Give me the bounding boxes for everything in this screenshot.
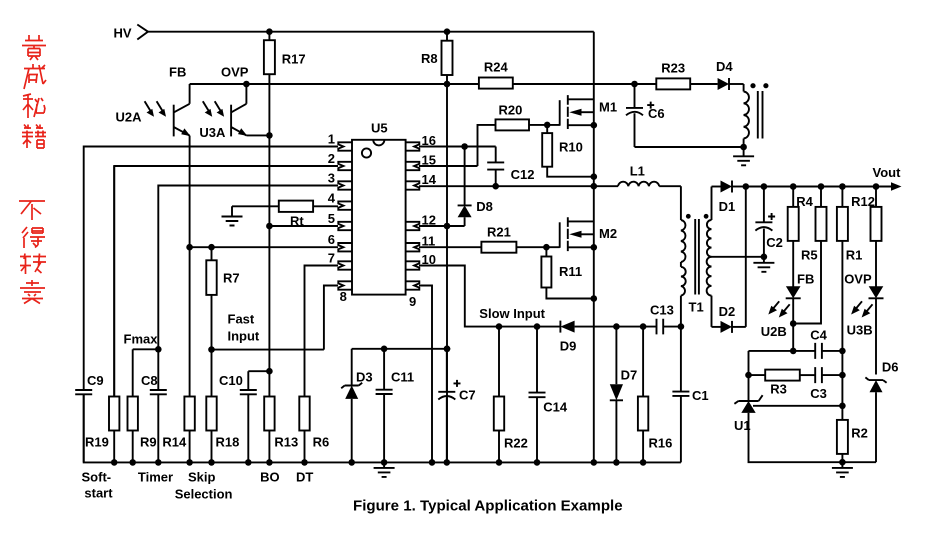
- svg-text:Soft-: Soft-: [82, 470, 112, 485]
- U5 pin 7: [338, 261, 352, 269]
- watermark char 7 (zhuan): [20, 254, 46, 275]
- U5 pin 5: [338, 222, 352, 230]
- node Vout R12: [873, 183, 880, 190]
- transformer aux winding: [744, 84, 749, 147]
- node C12 bottom / pin14: [492, 183, 499, 190]
- LED U2B: [761, 286, 801, 351]
- node Vout C2: [761, 183, 768, 190]
- wire FB/OVP horizontal to R24: [190, 83, 479, 85]
- IC U5 body: [352, 121, 406, 295]
- capacitor C6 (polarized): [626, 84, 665, 147]
- shunt regulator U1: [734, 395, 876, 462]
- capacitor C1: [672, 327, 708, 463]
- node bus D3: [348, 459, 355, 466]
- wire pin9 riser: [419, 286, 432, 463]
- node bus R6: [301, 459, 308, 466]
- node bus R14: [186, 459, 193, 466]
- node bus R16: [640, 459, 647, 466]
- wire pin3 to left bus: [158, 186, 338, 391]
- svg-text:R20: R20: [499, 103, 523, 118]
- transformer T1 primary winding: [681, 220, 686, 327]
- wire L1 to T1 primary top: [680, 186, 682, 220]
- wire C4 row: [749, 350, 816, 352]
- U5 pin 3: [338, 181, 352, 189]
- resistor R18: [206, 397, 239, 463]
- resistor R22: [494, 327, 528, 463]
- svg-text:C9: C9: [87, 373, 104, 388]
- diode D1: [712, 181, 746, 215]
- diode D8: [458, 147, 493, 227]
- svg-text:4: 4: [328, 191, 336, 206]
- svg-text:R5: R5: [801, 248, 818, 263]
- svg-text:Fmax: Fmax: [124, 332, 159, 347]
- node slow R16: [640, 323, 647, 330]
- wire C6 bottom to transformer ground: [635, 146, 744, 148]
- wire pin2 to left bus: [114, 166, 338, 397]
- node ref/R1R2: [839, 403, 846, 410]
- wire T1 center tap to C2/gnd: [712, 256, 764, 258]
- node C7wire/447bus: [444, 346, 451, 353]
- resistor R17: [264, 32, 306, 74]
- svg-text:C6: C6: [648, 106, 665, 121]
- resistor R12: [851, 187, 881, 288]
- node bus C10: [245, 459, 252, 466]
- zener diode D6: [865, 360, 898, 463]
- watermark char 1 (huang): [22, 35, 46, 60]
- transistor M1 (MOSFET): [560, 95, 617, 129]
- resistor R4: [788, 187, 814, 288]
- watermark char 3 (mi): [23, 94, 45, 118]
- node bus D7: [613, 459, 620, 466]
- capacitor C14: [529, 327, 568, 463]
- optocoupler transistor U2A: [116, 84, 191, 136]
- resistor R6: [299, 397, 329, 463]
- node bus R13: [266, 459, 273, 466]
- node C10/R13 bus junction: [266, 368, 273, 375]
- resistor R1: [837, 187, 862, 420]
- transformer T1 core: [695, 219, 699, 295]
- resistor R16: [638, 327, 672, 463]
- svg-text:R12: R12: [851, 194, 875, 209]
- node Vout D2: [743, 183, 750, 190]
- svg-text:DT: DT: [296, 470, 313, 485]
- wire pin5 to R17 bus: [269, 225, 338, 227]
- capacitor C12: [487, 147, 534, 187]
- wire pin15: [419, 165, 478, 167]
- svg-text:Selection: Selection: [175, 486, 233, 501]
- wire U3A emitter to R17 bus: [246, 134, 269, 136]
- node C7 top: [444, 346, 451, 353]
- node aux gnd: [740, 144, 747, 151]
- inductor L1: [594, 164, 681, 187]
- svg-text:R22: R22: [504, 436, 528, 451]
- svg-text:C8: C8: [141, 373, 158, 388]
- node C2/center tap: [761, 253, 768, 260]
- node bus pin9: [429, 459, 436, 466]
- resistor R3: [749, 370, 816, 397]
- resistor R2: [837, 420, 868, 462]
- svg-text:U1: U1: [734, 418, 751, 433]
- zener diode D3: [341, 349, 372, 463]
- node U3A emitter junction: [266, 132, 273, 139]
- watermark char 6 (de): [22, 227, 45, 248]
- U5 pin 8: [338, 281, 352, 289]
- node bus R9: [129, 459, 136, 466]
- resistor R7: [206, 247, 239, 396]
- capacitor C2 (polarized): [755, 187, 783, 257]
- node C6/R23: [631, 81, 638, 88]
- ground at R2: [832, 462, 853, 477]
- wire R8 bottom bus (447) down to ground bus: [446, 75, 448, 462]
- diode D9: [560, 321, 657, 354]
- wire Fmax (R9 to C8 bus): [133, 348, 159, 350]
- svg-text:C3: C3: [810, 386, 827, 401]
- node Vout R5: [818, 183, 825, 190]
- node HV/R8 junction: [444, 28, 451, 35]
- svg-text:14: 14: [422, 172, 437, 187]
- node Fast Input/R7-R18 junction: [208, 346, 215, 353]
- HV input port: [114, 25, 149, 41]
- svg-text:R17: R17: [282, 52, 306, 67]
- svg-text:R4: R4: [796, 194, 813, 209]
- svg-text:T1: T1: [689, 300, 704, 315]
- wire pin7 to DT bus: [305, 266, 339, 397]
- svg-text:R6: R6: [313, 435, 330, 450]
- wire HV bus: [148, 31, 594, 33]
- svg-text:Fast: Fast: [228, 312, 255, 327]
- wire pin16: [419, 146, 496, 148]
- svg-text:C7: C7: [459, 388, 476, 403]
- watermark char 8 (mai): [20, 280, 45, 304]
- svg-text:U3B: U3B: [847, 323, 873, 338]
- node Vout R1: [839, 183, 846, 190]
- svg-text:C13: C13: [650, 303, 674, 318]
- svg-text:Input: Input: [228, 329, 260, 344]
- svg-text:M1: M1: [599, 100, 617, 115]
- resistor R13: [264, 397, 298, 463]
- svg-text:9: 9: [409, 294, 416, 309]
- svg-text:1: 1: [328, 132, 335, 147]
- svg-text:3: 3: [328, 171, 335, 186]
- capacitor C11: [376, 349, 415, 463]
- node L1/pin14: [591, 183, 598, 190]
- watermark char 2 (cheng): [24, 64, 46, 89]
- svg-text:2: 2: [328, 151, 335, 166]
- diode D7: [610, 327, 637, 463]
- transformer T1 secondary winding: [707, 187, 712, 327]
- LED U3B: [847, 286, 884, 374]
- svg-text:R13: R13: [274, 435, 298, 450]
- svg-text:C14: C14: [543, 400, 568, 415]
- wire Slow Input row: [419, 266, 560, 327]
- ground at C2: [753, 257, 774, 272]
- node pin5 junction: [266, 223, 273, 230]
- T1 phasing dots: [686, 214, 691, 219]
- wire M1/M2 drain-source riser: [593, 32, 595, 463]
- watermark char 4 (ji): [22, 125, 46, 149]
- svg-text:start: start: [84, 486, 113, 501]
- ground at aux winding: [733, 147, 754, 165]
- wire pin6 to U2A bus: [190, 246, 338, 248]
- svg-text:Vout: Vout: [873, 165, 902, 180]
- node C3row R1bus: [839, 372, 846, 379]
- ground at Rt: [222, 206, 243, 225]
- ground below C11: [374, 462, 395, 477]
- node R11 bottom: [591, 295, 598, 302]
- svg-text:Timer: Timer: [138, 470, 173, 485]
- capacitor C4: [810, 328, 842, 359]
- wire D2 cathode riser to Vout: [745, 187, 747, 327]
- wire D3/C11/C7 row: [352, 348, 447, 350]
- svg-text:R2: R2: [851, 426, 868, 441]
- svg-text:D8: D8: [476, 199, 493, 214]
- wire U2A emitter bus down to R14: [189, 136, 191, 397]
- aux phasing dots: [750, 83, 755, 88]
- svg-text:FB: FB: [797, 272, 814, 287]
- svg-text:R14: R14: [162, 435, 187, 450]
- svg-text:R3: R3: [770, 382, 787, 397]
- node bus C14: [534, 459, 541, 466]
- node R21/R11: [543, 244, 550, 251]
- svg-text:C10: C10: [219, 373, 243, 388]
- capacitor C10: [219, 371, 269, 462]
- resistor R19: [85, 166, 119, 462]
- node pin6/R7 junction: [208, 244, 215, 251]
- resistor Rt: [232, 201, 338, 229]
- diode D4: [690, 59, 743, 90]
- svg-text:R11: R11: [559, 264, 582, 279]
- svg-text:R1: R1: [846, 248, 863, 263]
- node R3 row left: [745, 372, 752, 379]
- capacitor C7 (polarized): [438, 349, 475, 463]
- resistor R11: [541, 247, 593, 298]
- node U3A collector on OVP wire: [243, 81, 250, 88]
- svg-text:U3A: U3A: [199, 125, 226, 140]
- svg-text:R9: R9: [140, 435, 157, 450]
- svg-text:C2: C2: [766, 235, 783, 250]
- svg-text:R8: R8: [421, 51, 438, 66]
- node C11 top: [381, 346, 388, 353]
- resistor R10: [542, 125, 594, 177]
- svg-text:5: 5: [328, 211, 335, 226]
- resistor R5: [793, 187, 826, 324]
- svg-text:U2A: U2A: [116, 110, 143, 125]
- diode D2: [712, 304, 746, 333]
- svg-text:U2B: U2B: [761, 324, 787, 339]
- resistor R23: [656, 60, 690, 89]
- watermark char 5 (bu): [19, 201, 45, 220]
- svg-text:R23: R23: [661, 60, 685, 75]
- svg-text:HV: HV: [114, 26, 132, 41]
- node Fmax junction: [155, 346, 162, 353]
- wire R17 bottom bus down to R13: [268, 74, 270, 396]
- node R2 bottom: [839, 459, 846, 466]
- transistor M2 (MOSFET): [560, 217, 617, 251]
- Vout arrowhead: [891, 182, 902, 190]
- node R8/OVP wire: [444, 81, 451, 88]
- wire bottom ground bus: [84, 394, 681, 462]
- node bus C11: [381, 459, 388, 466]
- U5 pin 11: [406, 243, 420, 251]
- node U2B/R5: [790, 320, 797, 327]
- node pin12/447bus: [444, 223, 451, 230]
- U5 pin 16: [406, 142, 420, 150]
- svg-text:Slow Input: Slow Input: [479, 306, 545, 321]
- node slow R22: [496, 323, 503, 330]
- capacitor C13: [650, 303, 681, 335]
- svg-text:C12: C12: [511, 167, 535, 182]
- svg-text:D6: D6: [882, 360, 899, 375]
- U5 pin 2: [338, 162, 352, 170]
- node bus C8: [155, 459, 162, 466]
- node M1 source: [591, 122, 598, 129]
- node bus M2: [591, 459, 598, 466]
- svg-text:R24: R24: [484, 60, 509, 75]
- svg-text:R7: R7: [223, 271, 240, 286]
- optocoupler transistor U3A: [199, 84, 247, 140]
- wire pin8 to Fast Input: [324, 286, 338, 350]
- svg-text:7: 7: [328, 251, 335, 266]
- svg-text:6: 6: [328, 232, 335, 247]
- wire pin1 to left bus: [84, 147, 338, 391]
- resistor R9: [128, 349, 157, 462]
- node bus R22: [496, 459, 503, 466]
- svg-text:C11: C11: [391, 370, 414, 385]
- wire U1 ref to divider: [753, 405, 842, 407]
- capacitor C9: [75, 373, 103, 462]
- svg-text:R19: R19: [85, 435, 109, 450]
- svg-text:C4: C4: [810, 328, 827, 343]
- wire pin14 to M1/M2 node: [419, 185, 594, 187]
- svg-text:Skip: Skip: [188, 470, 216, 485]
- transformer aux core: [758, 91, 763, 139]
- svg-text:OVP: OVP: [221, 65, 249, 80]
- svg-text:C1: C1: [692, 388, 709, 403]
- node bus C7: [444, 459, 451, 466]
- node slow C14: [534, 323, 541, 330]
- node pin16/D8: [461, 143, 468, 150]
- capacitor C8: [141, 373, 167, 462]
- svg-text:M2: M2: [599, 226, 617, 241]
- resistor R20: [478, 103, 560, 167]
- node pin6/U2A junction: [186, 244, 193, 251]
- U5 pin 15: [406, 162, 420, 170]
- node R20/R10: [544, 122, 551, 129]
- svg-text:OVP: OVP: [844, 272, 872, 287]
- svg-text:BO: BO: [260, 470, 280, 485]
- wire R24 to C6/R23: [513, 83, 657, 85]
- svg-text:D2: D2: [719, 304, 736, 319]
- svg-text:R16: R16: [649, 436, 673, 451]
- svg-text:D1: D1: [719, 199, 736, 214]
- wire Fast Input: [212, 349, 324, 351]
- svg-text:Figure 1. Typical Application: Figure 1. Typical Application Example: [353, 499, 623, 515]
- node bus R19: [111, 459, 118, 466]
- U5 pin 1: [338, 142, 352, 150]
- U5 pin 14: [406, 181, 420, 189]
- svg-text:R18: R18: [216, 435, 240, 450]
- node slow T1 primary bottom: [678, 323, 685, 330]
- wire pin12 to D8: [419, 225, 465, 227]
- resistor R8: [421, 32, 453, 75]
- U5 pin 12: [406, 222, 420, 230]
- svg-text:L1: L1: [630, 164, 645, 179]
- svg-text:D3: D3: [356, 370, 373, 385]
- node M2 source: [591, 244, 598, 251]
- svg-text:R21: R21: [487, 225, 511, 240]
- node Vout R4: [790, 183, 797, 190]
- capacitor C3: [810, 367, 842, 401]
- node C4row R1bus: [839, 348, 846, 355]
- node HV/R17 junction: [266, 28, 273, 35]
- svg-text:D7: D7: [621, 368, 638, 383]
- wire U1 left vertical: [748, 351, 750, 401]
- svg-text:U5: U5: [371, 121, 388, 136]
- resistor R24: [479, 60, 513, 89]
- resistor R14: [162, 397, 194, 463]
- wire Vout line: [746, 186, 894, 188]
- node R10 bottom: [591, 173, 598, 180]
- svg-text:R10: R10: [559, 140, 583, 155]
- U5 pin 6: [338, 243, 352, 251]
- U5 pin 4: [338, 201, 352, 209]
- node bus R18: [208, 459, 215, 466]
- node slow D7: [613, 323, 620, 330]
- svg-text:8: 8: [340, 289, 347, 304]
- U5 pin 9: [406, 281, 420, 289]
- svg-text:D9: D9: [560, 339, 577, 354]
- U5 pin 10: [406, 261, 420, 269]
- node C4row U2B: [790, 348, 797, 355]
- svg-text:D4: D4: [716, 59, 733, 74]
- resistor R21: [419, 225, 560, 253]
- svg-text:FB: FB: [169, 65, 186, 80]
